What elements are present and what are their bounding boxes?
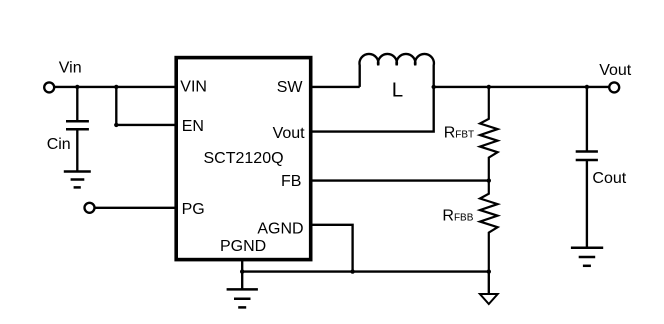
node junction AGND bottom — [350, 269, 354, 273]
wire Vout pin to output vertical — [311, 87, 434, 132]
wire Vin terminal to VIN pin — [54, 86, 176, 88]
svg-text:SW: SW — [277, 79, 304, 96]
svg-text:Vout: Vout — [599, 62, 632, 79]
node junction RFBB bottom — [487, 269, 491, 273]
op-amp U1 SCT2120Q body — [176, 58, 311, 260]
resistor RFBB — [480, 181, 498, 272]
wire Cin bottom lead — [76, 129, 78, 171]
ground below PGND — [227, 289, 258, 307]
svg-text:Cout: Cout — [592, 170, 626, 187]
svg-text:VIN: VIN — [180, 79, 207, 96]
wire EN tap vertical — [115, 87, 117, 125]
wire AGND pin to bottom rail — [311, 225, 353, 272]
node PG terminal — [85, 203, 95, 213]
node Vin terminal — [44, 82, 54, 92]
ground below Cout — [571, 248, 603, 266]
wire FB pin to divider — [311, 179, 489, 181]
capacitor Cout — [576, 152, 598, 161]
node junction SW output — [432, 85, 436, 89]
inductor L — [360, 54, 434, 87]
node junction Vin/Cin — [75, 85, 79, 89]
node junction Cout top — [585, 85, 589, 89]
svg-text:Vin: Vin — [59, 60, 82, 77]
node junction Vin/EN tap — [114, 85, 118, 89]
capacitor Cin — [66, 121, 89, 129]
ground arrow below RFBB — [480, 272, 498, 304]
svg-text:Cin: Cin — [47, 136, 71, 153]
ground below Cin — [64, 172, 91, 188]
wire PGND pin lead — [241, 260, 243, 290]
wire Cout bottom lead — [586, 160, 588, 248]
node Vout terminal — [609, 82, 619, 92]
wire Cout top lead — [586, 87, 588, 152]
svg-text:FB: FB — [281, 173, 301, 190]
wire Cin top lead — [76, 87, 78, 121]
wire bottom rail PGND to RFBB — [242, 270, 489, 272]
node junction RFBT top — [487, 85, 491, 89]
svg-text:SCT2120Q: SCT2120Q — [204, 150, 284, 167]
wire output rail — [434, 86, 610, 88]
svg-text:EN: EN — [182, 118, 204, 135]
wire PG terminal to PG pin — [95, 207, 177, 209]
node junction PGND — [240, 269, 244, 273]
node junction FB divider — [487, 178, 491, 182]
svg-text:PG: PG — [182, 201, 205, 218]
node junction EN corner — [114, 123, 118, 127]
svg-text:L: L — [392, 79, 403, 102]
wire EN tap to EN pin — [116, 124, 176, 126]
svg-text:AGND: AGND — [257, 220, 303, 237]
svg-text:PGND: PGND — [220, 238, 266, 255]
resistor RFBT — [480, 87, 498, 181]
svg-text:Vout: Vout — [273, 125, 306, 142]
wire SW pin to inductor — [311, 86, 360, 88]
